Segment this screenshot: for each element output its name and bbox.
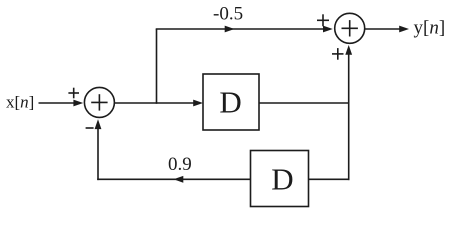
plus sign inside adder S2: [342, 20, 358, 36]
wire riser to delay B2 input: [309, 178, 350, 180]
arrowhead into adder S2: [323, 26, 333, 33]
wire B2 output feedback to left: [97, 178, 250, 180]
wire B1 output to vertical riser: [259, 102, 349, 104]
adder S2 circle: [335, 13, 365, 43]
label D in B1: [219, 85, 241, 120]
gain label -0.5: [213, 4, 243, 25]
arrowhead into delay B1: [193, 100, 203, 107]
arrowhead at y[n]: [399, 26, 409, 33]
label D in B2: [271, 161, 293, 196]
node branch junction after S1: [156, 29, 158, 104]
arrowhead mid feedback pointing left: [174, 176, 184, 183]
wire S2 output to y[n]: [365, 28, 401, 30]
wire top branch horizontal: [156, 28, 327, 30]
svg-text:y[n]: y[n]: [414, 17, 446, 38]
svg-text:0.9: 0.9: [168, 154, 192, 175]
arrowhead into S2 bottom: [345, 45, 352, 55]
label y[n]: [414, 17, 446, 38]
plus sign at S2 bottom input: [332, 48, 344, 60]
wire feedback vertical up to S1 bottom: [97, 125, 99, 180]
minus sign at S1 bottom input: [86, 127, 94, 129]
wire vertical riser to S2 bottom: [348, 51, 350, 180]
gain label 0.9: [168, 154, 192, 175]
wire S1 output to delay B1: [115, 102, 196, 104]
svg-text:-0.5: -0.5: [213, 4, 243, 25]
arrowhead into adder S1: [73, 100, 83, 107]
svg-text:D: D: [271, 161, 293, 196]
plus sign inside adder S1: [91, 94, 107, 110]
plus sign at S1 left input: [68, 88, 79, 99]
svg-text:D: D: [219, 85, 241, 120]
svg-text:x[n]: x[n]: [6, 93, 34, 112]
wire x[n] input to adder S1: [39, 102, 77, 104]
label x[n]: [6, 93, 34, 112]
plus sign at S2 left input: [317, 14, 329, 26]
adder S1 circle: [84, 87, 114, 117]
arrowhead into S1 bottom: [95, 119, 102, 129]
arrowhead mid top branch: [225, 26, 235, 33]
delay block B1 box: [203, 74, 259, 130]
delay block B2 box: [251, 151, 309, 207]
